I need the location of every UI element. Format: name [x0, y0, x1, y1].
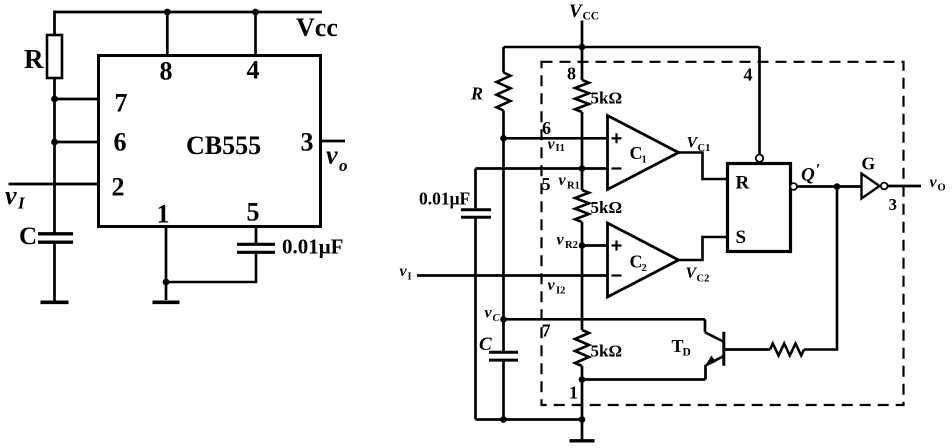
- pin number 4 (left ic): [247, 56, 260, 85]
- label C (left): [19, 223, 37, 250]
- svg-text:2: 2: [642, 263, 647, 274]
- label V_C1: [687, 135, 711, 155]
- svg-text:C: C: [19, 223, 37, 250]
- wire: v_R1 pin5 wire: [476, 167, 608, 170]
- svg-text:v: v: [326, 141, 338, 170]
- wire: Vcc stub (right): [581, 21, 584, 48]
- svg-text:5kΩ: 5kΩ: [591, 198, 623, 217]
- svg-text:Vcc: Vcc: [296, 13, 338, 42]
- svg-text:5: 5: [542, 174, 551, 194]
- label v_I1: [548, 136, 565, 154]
- 5k resistor chain top lead: [581, 47, 584, 80]
- capacitor C (right) top plate: [489, 351, 518, 354]
- label R (left): [24, 44, 44, 74]
- label v_I2: [548, 277, 566, 297]
- node: rail/C junction: [500, 416, 507, 423]
- label C (right): [479, 334, 492, 355]
- capacitor 0.01uF (left) bottom plate: [237, 251, 275, 254]
- pin number 7 (left ic): [115, 89, 128, 118]
- node: vcc rail dot: [579, 44, 586, 51]
- svg-text:R1: R1: [567, 181, 580, 192]
- wire: resistor R top lead: [53, 11, 56, 36]
- svg-text:I: I: [17, 194, 26, 213]
- label v_R2: [557, 232, 578, 252]
- wire: pin 7 connection: [55, 98, 99, 101]
- node: emitter/pin1 junction: [579, 376, 586, 383]
- wire: pin 8 stub: [166, 12, 169, 56]
- wire: v_I1 pin6 wire: [504, 137, 608, 140]
- ground (right): [570, 439, 595, 442]
- svg-text:′: ′: [816, 162, 821, 179]
- flip-flop box: [728, 164, 791, 252]
- svg-text:v: v: [485, 305, 493, 322]
- svg-text:1: 1: [157, 200, 170, 229]
- resistor 5k #1 zigzag: [575, 80, 589, 112]
- label C2: [630, 252, 647, 275]
- comparator C1: [608, 116, 679, 190]
- svg-text:0.01μF: 0.01μF: [419, 189, 470, 209]
- svg-text:8: 8: [160, 57, 173, 86]
- svg-text:4: 4: [247, 56, 260, 85]
- svg-text:6: 6: [542, 118, 551, 138]
- label CB555: [186, 131, 261, 160]
- svg-text:4: 4: [744, 64, 753, 84]
- label C1: [630, 143, 647, 166]
- wire: v_R2 to comparator C2: [582, 244, 608, 247]
- wire: pin 1 down lead: [165, 226, 168, 300]
- dashed IC boundary box: [542, 62, 904, 405]
- svg-text:R: R: [470, 84, 483, 104]
- label T_D: [672, 336, 691, 359]
- bubble: Q-bar output: [790, 183, 797, 190]
- wire: pin 4 reset line: [758, 47, 761, 154]
- label 5k#1: [591, 89, 623, 108]
- wire: top rail (right): [504, 46, 760, 48]
- svg-text:v: v: [559, 172, 567, 189]
- wire: bottom rail: [476, 418, 583, 421]
- svg-text:I2: I2: [556, 286, 565, 297]
- wire: C bottom lead: [53, 244, 56, 301]
- wire: v_I input (right): [417, 274, 608, 277]
- wire: v_I input to pin 2: [9, 183, 99, 186]
- svg-text:I1: I1: [556, 143, 565, 154]
- resistor 5k #2 zigzag: [575, 190, 589, 222]
- wire: pin 3 output: [320, 140, 345, 143]
- label R (flip-flop): [736, 173, 750, 194]
- capacitor 0.01uF (right) bottom plate: [461, 216, 491, 219]
- wire: R branch top lead: [502, 47, 505, 73]
- wire: chain bottom: [581, 366, 584, 421]
- node: Vcc rail dot pin8: [164, 9, 171, 16]
- wire: pin 5 down lead: [255, 226, 258, 243]
- pin number 1 (left ic): [157, 200, 170, 229]
- svg-text:5kΩ: 5kΩ: [591, 342, 623, 361]
- inverter G triangle: [862, 174, 880, 199]
- node: v_C junction: [500, 316, 507, 323]
- label v_I (right): [400, 263, 412, 283]
- label 5k#2: [591, 198, 623, 217]
- wire: R bottom long vertical to cap C: [502, 111, 505, 352]
- capacitor C (left) bottom plate: [38, 240, 73, 243]
- comparator C2: [608, 223, 679, 297]
- wire: R bottom lead down to cap C: [53, 78, 56, 234]
- node: junction pin6: [51, 139, 58, 146]
- svg-text:2: 2: [112, 173, 125, 202]
- svg-text:S: S: [736, 227, 747, 248]
- svg-text:7: 7: [115, 89, 128, 118]
- label G: [862, 154, 876, 174]
- wire: base resistor to Q line: [804, 187, 837, 350]
- wire: chain 2-3: [581, 222, 584, 330]
- svg-text:5: 5: [247, 198, 260, 227]
- transistor TD: [582, 319, 724, 379]
- node: v_R2 divider junction: [579, 242, 586, 249]
- wire: Q to inverter: [797, 185, 861, 188]
- wire: pin 4 stub: [254, 12, 257, 56]
- svg-text:8: 8: [567, 64, 576, 84]
- pin number 3 (right): [889, 195, 898, 214]
- label 5k#3: [591, 342, 623, 361]
- label v_R1: [559, 172, 580, 192]
- label v_o (left output): [326, 141, 348, 176]
- svg-text:v: v: [5, 181, 17, 210]
- svg-text:C: C: [493, 313, 501, 324]
- label Q-prime: [801, 162, 821, 186]
- capacitor C (right) bottom plate: [489, 359, 518, 362]
- svg-text:R: R: [24, 44, 44, 74]
- svg-text:7: 7: [542, 321, 551, 341]
- label Vcc: [296, 13, 338, 42]
- node: rail/gnd junction: [579, 416, 586, 423]
- svg-text:G: G: [862, 154, 876, 174]
- resistor 5k #3 zigzag: [575, 330, 589, 366]
- svg-text:v: v: [400, 263, 408, 280]
- pin number 8 (right): [567, 64, 576, 84]
- svg-text:1: 1: [642, 155, 647, 166]
- wire: 0.01uF top lead: [474, 169, 477, 209]
- svg-text:v: v: [930, 174, 938, 191]
- wire: v_C pin7 line to collector: [504, 318, 706, 321]
- svg-text:1: 1: [569, 383, 578, 403]
- label v_C: [485, 305, 501, 325]
- wire: C1 output to R input: [679, 153, 727, 180]
- capacitor 0.01uF (right) top plate: [461, 208, 491, 211]
- capacitor C (left) top plate: [38, 232, 73, 235]
- pin number 1 (right): [569, 383, 578, 403]
- svg-text:v: v: [548, 277, 556, 294]
- resistor R (left circuit): [47, 35, 62, 78]
- svg-text:C: C: [479, 334, 492, 355]
- node: junction R/pin6 wire: [500, 135, 507, 142]
- node: v_R1 divider junction: [579, 165, 586, 172]
- wire: C bottom lead (right): [502, 362, 505, 420]
- label v_I (left input): [5, 181, 26, 213]
- svg-text:R2: R2: [565, 240, 578, 251]
- pin number 7 (right): [542, 321, 551, 341]
- svg-text:5kΩ: 5kΩ: [591, 89, 623, 108]
- node: pin1/cap junction: [163, 279, 170, 286]
- svg-text:D: D: [683, 347, 691, 359]
- svg-text:CB555: CB555: [186, 131, 261, 160]
- wire: inverter output v_O: [888, 185, 921, 188]
- resistor R (right) zigzag: [497, 73, 511, 111]
- label S (flip-flop): [736, 227, 747, 248]
- svg-text:C2: C2: [697, 274, 710, 285]
- capacitor 0.01uF (left) top plate: [237, 243, 275, 246]
- svg-text:CC: CC: [583, 11, 600, 23]
- wire: 0.01uF bottom to pin1 node: [166, 254, 256, 282]
- IC box CB555: [99, 56, 321, 227]
- svg-text:I: I: [408, 272, 412, 283]
- ground (left C): [41, 300, 69, 304]
- pin number 6 (left ic): [114, 128, 127, 157]
- label V_CC (right): [569, 1, 599, 23]
- wire: Vcc top rail (left circuit): [53, 11, 322, 14]
- node: junction R/pin7: [51, 96, 58, 103]
- wire: ground stub (right): [581, 420, 584, 440]
- wire: base lead: [725, 348, 770, 351]
- pin number 4 (right): [744, 64, 753, 84]
- svg-text:V: V: [569, 1, 583, 22]
- wire: chain 1-2: [581, 112, 584, 190]
- svg-text:O: O: [938, 183, 946, 194]
- pin number 2 (left ic): [112, 173, 125, 202]
- ground (pin 1): [153, 300, 180, 304]
- wire: C2 output to S input: [679, 237, 727, 260]
- svg-text:R: R: [736, 173, 750, 194]
- label V_C2: [686, 265, 710, 285]
- svg-text:Q: Q: [801, 165, 815, 186]
- svg-text:0.01μF: 0.01μF: [282, 235, 343, 259]
- label v_O (right output): [930, 174, 946, 194]
- label R (right): [470, 84, 483, 104]
- label 0.01uF (left): [282, 235, 343, 259]
- pin number 6 (right): [542, 118, 551, 138]
- pin number 3 (left ic): [301, 128, 314, 157]
- svg-text:v: v: [548, 136, 556, 153]
- wire: pin 6 connection: [55, 141, 99, 144]
- svg-text:3: 3: [889, 195, 898, 214]
- pin number 8 (left ic): [160, 57, 173, 86]
- node: Vcc rail dot pin4: [252, 9, 259, 16]
- svg-text:o: o: [339, 156, 348, 175]
- resistor base zigzag: [770, 344, 804, 356]
- node: Q/base junction: [834, 183, 841, 190]
- pin number 5 (right): [542, 174, 551, 194]
- label 0.01uF (right): [419, 189, 470, 209]
- pin number 5 (left ic): [247, 198, 260, 227]
- wire: 0.01uF bottom lead: [474, 219, 477, 420]
- svg-text:v: v: [557, 232, 565, 249]
- bubble: reset input: [756, 155, 763, 162]
- svg-text:3: 3: [301, 128, 314, 157]
- svg-text:6: 6: [114, 128, 127, 157]
- bubble: inverter output: [881, 183, 888, 190]
